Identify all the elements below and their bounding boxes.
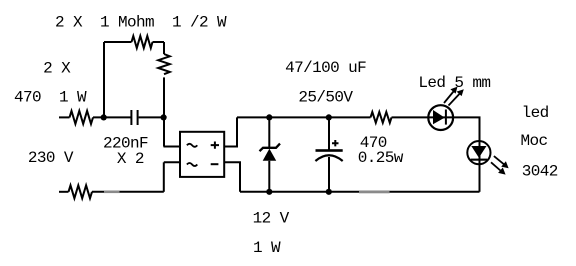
svg-text:25/50V: 25/50V xyxy=(298,89,353,107)
svg-text:3042: 3042 xyxy=(522,162,558,180)
svg-text:2 X: 2 X xyxy=(43,60,71,78)
svg-text:230 V: 230 V xyxy=(28,149,74,167)
svg-text:Led 5 mm: Led 5 mm xyxy=(418,74,490,92)
svg-text:12 V: 12 V xyxy=(253,210,290,228)
svg-text:470 1 W: 470 1 W xyxy=(14,89,87,107)
svg-text:0.25w: 0.25w xyxy=(358,149,404,167)
svg-text:1 W: 1 W xyxy=(253,239,281,257)
svg-text:X 2: X 2 xyxy=(117,150,144,168)
svg-text:led: led xyxy=(522,104,549,122)
svg-text:47/100 uF: 47/100 uF xyxy=(285,59,366,77)
svg-text:Moc: Moc xyxy=(521,132,548,150)
svg-text:2 X 1 Mohm 1 /2 W: 2 X 1 Mohm 1 /2 W xyxy=(55,13,227,31)
